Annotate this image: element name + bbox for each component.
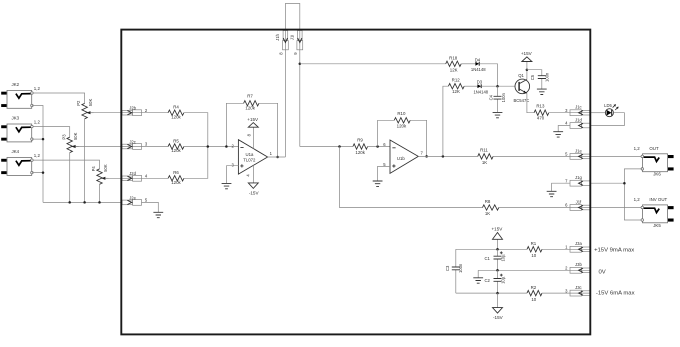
wire P4 bottom to ground rail xyxy=(99,184,101,202)
svg-text:P2: P2 xyxy=(76,100,81,106)
svg-text:J2d: J2d xyxy=(129,171,136,176)
resistor R4 120k xyxy=(168,105,184,120)
junction R18 tap xyxy=(299,63,302,66)
svg-text:J2b: J2b xyxy=(129,106,136,111)
svg-text:12K: 12K xyxy=(450,68,458,73)
svg-text:R1: R1 xyxy=(531,241,537,246)
svg-text:-15V: -15V xyxy=(249,191,260,196)
wire U1a output to J1h xyxy=(268,156,286,158)
connector pin J2c pin 3 xyxy=(122,139,148,149)
wire R12 to D3 xyxy=(464,85,477,87)
svg-text:C3: C3 xyxy=(445,265,450,271)
wire -15V rail xyxy=(456,292,527,294)
wire R12 branch from output xyxy=(443,86,449,156)
svg-text:R12: R12 xyxy=(452,78,461,83)
connector pin J3c pin 3 xyxy=(565,285,590,296)
svg-text:120k: 120k xyxy=(397,124,407,129)
svg-text:R5: R5 xyxy=(173,138,179,143)
svg-text:1,2: 1,2 xyxy=(634,146,641,151)
junction 0V xyxy=(496,269,499,272)
svg-text:C1: C1 xyxy=(485,256,491,261)
svg-text:JK2: JK2 xyxy=(12,82,20,87)
svg-text:120k: 120k xyxy=(355,150,365,155)
diode D3 1N4148 xyxy=(473,80,488,95)
wire feedback left leg xyxy=(226,103,243,146)
capacitor C2 10u xyxy=(485,270,506,293)
wire J1f to JK5 xyxy=(590,207,642,209)
wire R10 right leg to output xyxy=(410,120,426,156)
svg-text:Q1: Q1 xyxy=(518,73,524,78)
connector pin J3a pin 1 xyxy=(565,241,590,252)
connector pin J1c pin 3 xyxy=(565,105,590,116)
svg-text:LD5: LD5 xyxy=(604,103,612,108)
resistor R11 1K xyxy=(478,147,493,165)
svg-text:0V: 0V xyxy=(599,269,606,275)
svg-text:+15V: +15V xyxy=(491,227,503,232)
svg-text:JK6: JK6 xyxy=(653,172,661,177)
wire U1b output to R11 xyxy=(418,155,477,157)
svg-text:J1i: J1i xyxy=(290,35,295,40)
svg-text:R18: R18 xyxy=(449,56,458,61)
ground at U1a pin 3 xyxy=(222,183,232,188)
svg-text:D4: D4 xyxy=(475,57,481,62)
U1a +15V supply pin 8 xyxy=(246,117,259,149)
svg-text:R8: R8 xyxy=(485,199,491,204)
jack JK2 xyxy=(1,82,40,108)
svg-text:P3: P3 xyxy=(61,134,66,140)
ground at C5 xyxy=(537,89,547,94)
resistor R7 120k xyxy=(244,93,259,110)
potentiometer P2 50K xyxy=(76,99,93,119)
junction feedback at output xyxy=(276,156,279,159)
+15V supply arrow power xyxy=(491,227,503,250)
svg-text:R9: R9 xyxy=(357,138,363,143)
ground at U1b pin 5 xyxy=(373,181,383,186)
connector pin J2d pin 4 xyxy=(122,171,148,181)
junction JK4 sleeve xyxy=(42,171,45,174)
resistor R5 120k xyxy=(168,138,184,153)
svg-text:-15V 6mA max: -15V 6mA max xyxy=(596,291,635,297)
wire LED to J1d return loop xyxy=(590,113,624,126)
ground at J2e xyxy=(153,212,163,217)
wire J1g ground stub xyxy=(552,183,570,191)
svg-text:50K: 50K xyxy=(88,99,93,107)
capacitor C5 100n xyxy=(530,72,549,89)
resistor R18 12K xyxy=(446,56,461,73)
svg-text:JK3: JK3 xyxy=(12,116,20,121)
junction collector supply node xyxy=(526,68,529,71)
wire J1e to JK6 xyxy=(590,155,642,157)
wire JK4 tip to pot P4 top xyxy=(32,160,100,169)
svg-text:J1c: J1c xyxy=(575,105,582,110)
capacitor C4 100n xyxy=(488,86,506,112)
resistor R6 120k xyxy=(168,170,184,185)
wire J1c to LED LD5 xyxy=(590,112,605,114)
jack JK6 OUT xyxy=(634,146,674,177)
wire U1b pin 5 to ground xyxy=(378,166,390,181)
svg-text:10: 10 xyxy=(531,253,536,258)
junction detector node xyxy=(496,85,499,88)
svg-text:1N4148: 1N4148 xyxy=(471,67,486,72)
junction summing node xyxy=(207,145,210,148)
wire 0V line xyxy=(478,269,590,271)
wire R10 feedback left leg xyxy=(378,120,395,146)
junction feedback at input xyxy=(225,145,228,148)
wire detector node to Q1 base xyxy=(481,85,515,87)
jack JK4 xyxy=(1,149,40,175)
svg-text:1N4148: 1N4148 xyxy=(473,90,488,95)
svg-text:R4: R4 xyxy=(173,105,179,110)
wire J2e to ground xyxy=(142,202,159,212)
wire R6 to summing node xyxy=(184,147,208,179)
LED LD5 xyxy=(604,103,618,117)
svg-text:1,2: 1,2 xyxy=(634,197,641,202)
wire feedback right leg to output xyxy=(259,103,278,157)
wire ground rail to J2e xyxy=(43,201,122,203)
svg-text:1K: 1K xyxy=(482,160,487,165)
wire 0V to ground xyxy=(477,270,479,278)
-15V supply arrow power xyxy=(493,293,504,320)
svg-text:R11: R11 xyxy=(480,147,488,152)
wire R13 to J1c xyxy=(549,112,591,114)
svg-text:J1e: J1e xyxy=(575,148,582,153)
svg-text:R6: R6 xyxy=(173,170,179,175)
jack JK5 INV OUT xyxy=(634,197,674,228)
wire R9 to U1b inverting input xyxy=(368,146,390,148)
wire JK2 tip to pot P2 top xyxy=(32,93,85,103)
svg-text:J1f: J1f xyxy=(576,199,582,204)
wire R2 to J3c xyxy=(542,292,590,294)
junction P2 bottom on rail xyxy=(83,201,86,204)
svg-text:JK5: JK5 xyxy=(653,223,661,228)
connector pin J2b pin 2 xyxy=(122,106,148,116)
resistor R13 470 xyxy=(534,104,549,121)
wire JK3 tip to pot P3 top xyxy=(32,127,70,138)
wire J1g to sleeve bus xyxy=(590,182,624,184)
wire R5 to U1a inverting input xyxy=(184,146,239,148)
svg-text:50K: 50K xyxy=(103,164,108,172)
wire R18 overdrive branch xyxy=(300,63,446,65)
diode D4 1N4148 xyxy=(471,57,486,72)
svg-text:C4: C4 xyxy=(488,94,493,100)
ground at C4 xyxy=(493,112,503,117)
wire Q1 collector to +15V xyxy=(526,70,528,80)
wire U1a pin 3 to ground xyxy=(227,166,239,184)
svg-text:INV OUT: INV OUT xyxy=(649,197,667,202)
wire +15V rail xyxy=(456,248,527,250)
transistor Q1 BC547C xyxy=(513,73,529,103)
connector pin J1g pin 7 xyxy=(565,175,590,186)
svg-text:P4: P4 xyxy=(91,166,96,172)
svg-text:J1h: J1h xyxy=(275,33,280,40)
wire P3 bottom to ground rail xyxy=(69,153,71,203)
svg-text:470: 470 xyxy=(537,116,545,121)
svg-text:R7: R7 xyxy=(247,93,253,98)
connector pin J1e pin 5 xyxy=(565,148,590,159)
wire R8 to J1f xyxy=(499,207,591,209)
capacitor C3 100n xyxy=(445,249,463,293)
svg-text:J3a: J3a xyxy=(575,241,582,246)
junction R8 branch xyxy=(338,145,341,148)
jack JK3 xyxy=(1,116,40,142)
connector pin J3b pin 2 xyxy=(565,262,590,273)
ground at J1d xyxy=(553,132,563,137)
svg-text:C2: C2 xyxy=(485,278,491,283)
svg-text:1,2: 1,2 xyxy=(34,120,41,125)
U1a -15V supply pin 4 xyxy=(246,165,260,195)
wire R18 to D4 xyxy=(461,63,475,65)
svg-text:120k: 120k xyxy=(171,148,181,153)
svg-text:10µ: 10µ xyxy=(501,276,506,284)
wire normal jumper loop J1h to J1i xyxy=(285,4,299,158)
svg-text:1K: 1K xyxy=(485,211,490,216)
svg-text:+15V: +15V xyxy=(247,117,259,122)
svg-text:120k: 120k xyxy=(171,114,181,119)
wire J1d ground stub xyxy=(558,126,570,132)
junction R10 tap xyxy=(376,145,379,148)
ground at 0V xyxy=(473,278,483,283)
svg-text:120k: 120k xyxy=(245,105,255,110)
wire R1 to J3a xyxy=(542,248,590,250)
wire JK6 sleeve down to JK5 sleeve xyxy=(624,169,642,220)
svg-text:50K: 50K xyxy=(73,132,78,140)
wire P4 wiper to J2d and R6 xyxy=(105,177,168,179)
resistor R10 120k xyxy=(394,111,410,128)
connector pin J2e pin 5 xyxy=(122,195,148,205)
junction P3 bottom on rail xyxy=(68,201,71,204)
svg-text:J1d: J1d xyxy=(575,117,582,122)
op-amp U1b xyxy=(383,140,423,173)
wire R4 to summing node xyxy=(184,113,208,147)
wire Q1 emitter to R13 xyxy=(527,93,534,112)
junction R12 tap xyxy=(442,155,445,158)
junction sleeve bus xyxy=(623,182,626,185)
connector pin J1h pin 8 xyxy=(275,31,288,55)
svg-text:R13: R13 xyxy=(536,104,545,109)
svg-text:+15V: +15V xyxy=(521,51,533,56)
svg-text:D3: D3 xyxy=(477,80,483,85)
wire R11 to J1e xyxy=(493,155,590,157)
junction JK3 sleeve xyxy=(42,138,45,141)
svg-text:R10: R10 xyxy=(397,111,406,116)
wire P2 wiper to J2b and R4 xyxy=(90,112,168,114)
connector pin J1i pin 9 xyxy=(290,31,303,55)
svg-text:-15V: -15V xyxy=(493,315,504,320)
svg-text:J3c: J3c xyxy=(575,285,582,290)
connector pin J1f pin 6 xyxy=(565,199,590,210)
wire R8 branch down xyxy=(340,147,483,208)
connector pin J1d pin 4 xyxy=(565,117,590,128)
op-amp U1a TL072 xyxy=(232,140,273,174)
svg-text:J3b: J3b xyxy=(575,262,582,267)
potentiometer P4 50K xyxy=(91,164,108,184)
wire P3 wiper to J2c and R5 xyxy=(76,146,169,148)
svg-text:C5: C5 xyxy=(530,74,535,80)
svg-text:JK4: JK4 xyxy=(12,149,20,154)
svg-text:100n: 100n xyxy=(458,263,463,273)
svg-text:U1b: U1b xyxy=(397,156,405,161)
potentiometer P3 50K xyxy=(61,132,78,152)
svg-text:OUT: OUT xyxy=(649,146,659,151)
resistor R9 120k xyxy=(353,138,368,156)
svg-text:120k: 120k xyxy=(171,180,181,185)
svg-text:R2: R2 xyxy=(531,285,537,290)
resistor R8 1K xyxy=(483,199,499,216)
wire P2 bottom to ground rail xyxy=(84,119,86,203)
junction -15V rail xyxy=(496,292,499,295)
svg-text:1,2: 1,2 xyxy=(34,86,41,91)
resistor R12 12K xyxy=(448,78,464,95)
wire J1i to R9 xyxy=(300,146,353,148)
svg-text:10µ: 10µ xyxy=(501,254,506,262)
resistor R1 10 xyxy=(527,241,542,258)
wire D4 down to detector node xyxy=(479,64,497,86)
svg-text:J1g: J1g xyxy=(575,175,582,180)
junction R10 at output xyxy=(425,155,428,158)
junction +15V rail xyxy=(496,248,499,251)
svg-text:+15V 9mA max: +15V 9mA max xyxy=(594,247,634,253)
svg-text:1,2: 1,2 xyxy=(34,153,41,158)
svg-text:10: 10 xyxy=(531,297,536,302)
resistor R2 10 xyxy=(527,285,542,302)
capacitor C1 10u xyxy=(485,249,506,270)
wire jack sleeves bus xyxy=(32,106,43,203)
svg-text:100n: 100n xyxy=(544,72,549,82)
ground at J1g xyxy=(547,191,557,196)
svg-text:12K: 12K xyxy=(452,89,460,94)
svg-text:100n: 100n xyxy=(501,92,506,102)
+15V supply at Q1 xyxy=(521,51,533,70)
wire to C5 xyxy=(527,70,542,76)
svg-text:J2e: J2e xyxy=(129,195,136,200)
svg-text:J2c: J2c xyxy=(129,139,136,144)
svg-text:TL072: TL072 xyxy=(243,157,256,162)
junction P4 bottom on rail xyxy=(98,201,101,204)
